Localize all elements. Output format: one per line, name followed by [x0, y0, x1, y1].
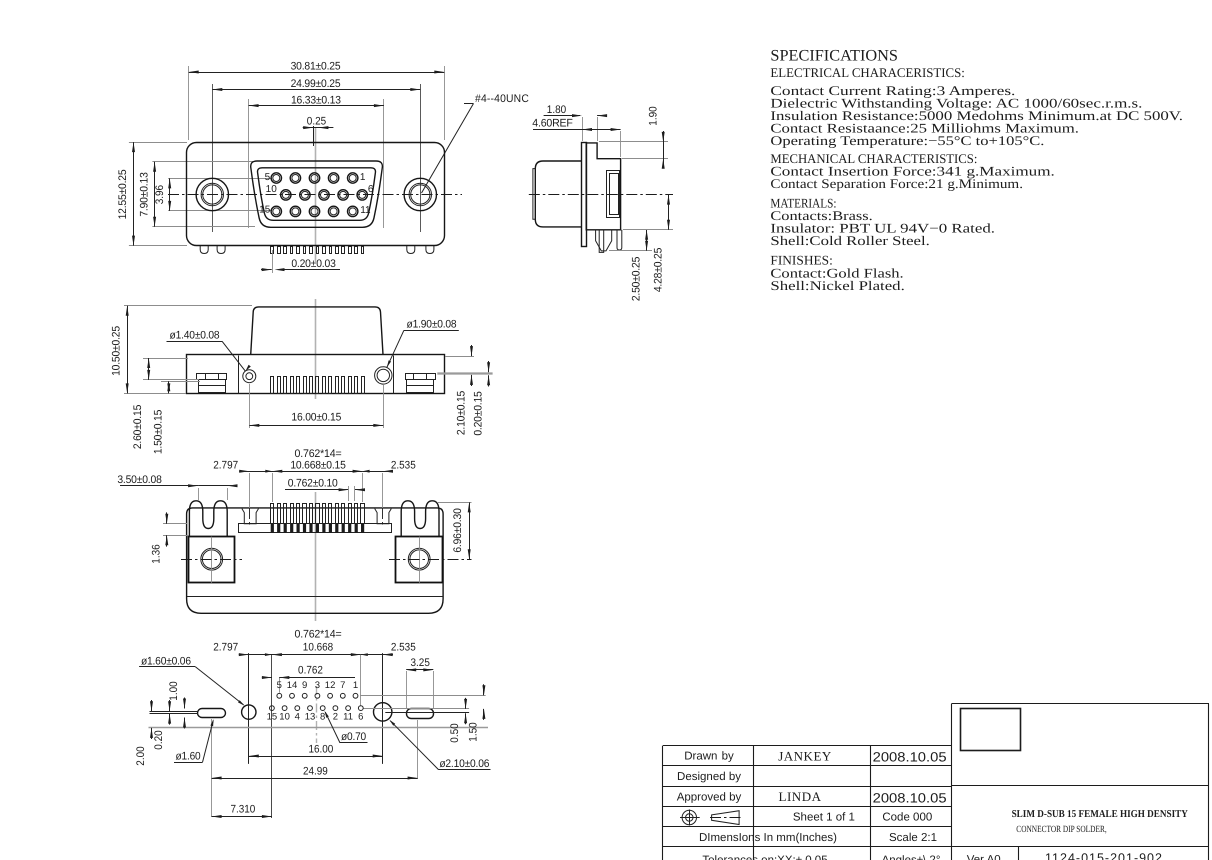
svg-text:10.50±0.25: 10.50±0.25 — [111, 326, 123, 376]
svg-text:4.28±0.25: 4.28±0.25 — [652, 248, 664, 292]
dimension 0.762*14=10.668±0.15 back view — [265, 448, 369, 502]
svg-text:2.10±0.15: 2.10±0.15 — [456, 391, 468, 435]
side view solder pin tapered — [596, 230, 612, 253]
front view solder pins row — [271, 247, 364, 254]
dimension 3.50±0.08 back view — [117, 474, 237, 500]
dimension 24.99±0.25 — [212, 78, 420, 91]
svg-text:0.20±0.15: 0.20±0.15 — [473, 391, 485, 435]
svg-text:5: 5 — [277, 680, 282, 691]
back view board lock fork left — [189, 501, 227, 537]
svg-text:11: 11 — [360, 205, 371, 216]
footprint small holes top row — [277, 693, 358, 698]
D-sub opening outer — [251, 161, 383, 227]
product title — [1012, 809, 1189, 835]
svg-text:#4--40UNC: #4--40UNC — [475, 93, 529, 105]
svg-text:2.535: 2.535 — [391, 641, 416, 653]
svg-text:Tolerances on:XX:± 0.05: Tolerances on:XX:± 0.05 — [702, 855, 827, 860]
svg-text:16.33±0.13: 16.33±0.13 — [291, 94, 341, 106]
dimension 2.00 footprint — [135, 700, 153, 766]
front view shell flange — [187, 143, 445, 246]
top view shell trapezoid — [251, 307, 383, 355]
svg-text:JANKEY: JANKEY — [778, 749, 832, 764]
svg-text:7.310: 7.310 — [230, 804, 255, 816]
back view insulator strip — [239, 524, 392, 533]
top view rivet hole small — [243, 370, 256, 383]
svg-text:0.762±0.10: 0.762±0.10 — [288, 477, 338, 489]
front view: center lines — [168, 127, 462, 262]
dimension 2.60±0.15 — [132, 358, 199, 449]
pin number labels front view — [259, 172, 374, 216]
svg-text:ELECTRICAL CHARACERISTICS:: ELECTRICAL CHARACERISTICS: — [770, 65, 965, 80]
back view board lock fork right — [401, 501, 439, 537]
dimension 30.81±0.25 — [189, 61, 445, 74]
svg-text:2008.10.05: 2008.10.05 — [873, 750, 947, 765]
svg-text:12: 12 — [325, 680, 336, 691]
dimension 7.310 footprint — [212, 804, 272, 819]
dimension 0.20±0.15 — [473, 361, 491, 436]
svg-text:15: 15 — [267, 712, 278, 723]
footprint reference line — [149, 727, 489, 729]
side view flange plate — [582, 143, 587, 247]
svg-text:Scale 2:1: Scale 2:1 — [889, 832, 937, 844]
svg-text:1.50±0.15: 1.50±0.15 — [153, 410, 165, 454]
svg-text:6: 6 — [368, 184, 374, 195]
thread callout #4--40UNC — [422, 93, 530, 193]
svg-text:ø1.40±0.08: ø1.40±0.08 — [170, 330, 220, 342]
dimension 6.96±0.30 back view — [437, 502, 472, 559]
front view mounting hole right — [404, 178, 436, 210]
back view polarizing tab left — [242, 509, 259, 524]
dimension 2.797 footprint — [213, 641, 283, 656]
svg-text:2.50±0.25: 2.50±0.25 — [631, 257, 643, 301]
svg-text:24.99±0.25: 24.99±0.25 — [291, 78, 341, 90]
back view lock block right — [389, 537, 472, 583]
svg-text:0.762*14=: 0.762*14= — [295, 628, 342, 640]
svg-text:3: 3 — [315, 680, 320, 691]
footprint small holes bottom row — [270, 706, 364, 711]
dimension 16.33±0.13 — [249, 94, 384, 107]
svg-text:11: 11 — [343, 712, 353, 723]
dimension 0.762*14=10.668 footprint — [265, 628, 368, 656]
svg-text:Operating Temperature:−55°C: Operating Temperature:−55°C to+105°C. — [770, 133, 1044, 148]
svg-text:2.797: 2.797 — [213, 459, 238, 471]
title block texts — [677, 749, 1163, 860]
svg-text:10.668: 10.668 — [303, 641, 333, 653]
svg-text:1: 1 — [360, 172, 366, 183]
dimension 4.28±0.25 side view — [623, 195, 673, 293]
top view flange — [187, 355, 445, 394]
svg-text:1.50: 1.50 — [467, 722, 479, 741]
side view body block — [586, 143, 620, 230]
svg-text:DImensIons In mm(Inches): DImensIons In mm(Inches) — [699, 832, 837, 844]
back view polarizing tab right — [375, 509, 392, 524]
top view lock sheet reference line — [437, 372, 492, 374]
footprint slot right — [364, 709, 470, 719]
svg-text:2: 2 — [333, 712, 338, 723]
svg-text:1: 1 — [353, 680, 358, 691]
svg-text:ø1.60: ø1.60 — [176, 751, 201, 763]
dimension 0.762 footprint — [262, 664, 355, 679]
svg-text:ø0.70: ø0.70 — [341, 731, 366, 743]
svg-text:10.668±0.15: 10.668±0.15 — [290, 459, 345, 471]
svg-text:Shell:Nickel Plated.: Shell:Nickel Plated. — [770, 278, 904, 293]
dimension 1.80 side view — [544, 104, 608, 141]
top view pins row — [271, 377, 365, 394]
svg-text:6.96±0.30: 6.96±0.30 — [452, 508, 464, 552]
footprint hole ø1.60 left — [242, 705, 256, 719]
svg-text:Approved by: Approved by — [677, 791, 742, 803]
svg-text:13: 13 — [305, 712, 316, 723]
logo box — [961, 709, 1021, 751]
svg-text:1124-015-201-902: 1124-015-201-902 — [1045, 851, 1163, 860]
svg-text:12.55±0.25: 12.55±0.25 — [117, 170, 129, 220]
svg-text:Contact Separation Force:21: Contact Separation Force:21 g.Minimum. — [770, 176, 1023, 191]
svg-text:3.96: 3.96 — [154, 185, 166, 204]
front view mounting hole left — [196, 178, 228, 210]
back view lock block left — [181, 537, 242, 583]
svg-text:1.36: 1.36 — [150, 544, 162, 563]
svg-text:16.00±0.15: 16.00±0.15 — [291, 411, 341, 423]
svg-text:10: 10 — [279, 712, 290, 723]
dimension 0.20 footprint — [153, 700, 171, 750]
top view rivet hole large — [375, 367, 392, 384]
svg-text:2008.10.05: 2008.10.05 — [873, 790, 947, 805]
callout ø1.60±0.06 — [139, 655, 244, 705]
dimension 12.55±0.25 — [117, 142, 135, 246]
svg-text:2.797: 2.797 — [213, 641, 238, 653]
svg-text:30.81±0.25: 30.81±0.25 — [291, 61, 341, 73]
svg-text:4.60REF: 4.60REF — [532, 118, 573, 130]
side view board lock pin — [617, 230, 622, 250]
footprint top row line ext — [360, 695, 486, 697]
svg-text:ø1.90±0.08: ø1.90±0.08 — [407, 319, 457, 331]
dimension 0.20±0.03 — [261, 250, 340, 273]
svg-text:0.20±0.03: 0.20±0.03 — [291, 258, 335, 270]
svg-text:Sheet 1 of 1: Sheet 1 of 1 — [793, 812, 855, 824]
top view board lock left — [197, 373, 227, 392]
svg-text:ø2.10±0.06: ø2.10±0.06 — [439, 758, 489, 770]
side view insulator slot — [607, 171, 620, 218]
dimension 7.90±0.13 — [138, 162, 156, 227]
svg-text:SPECIFICATIONS: SPECIFICATIONS — [770, 48, 898, 65]
dimension 0.50 footprint — [449, 698, 467, 743]
front view: extension lines — [129, 66, 445, 246]
svg-text:5: 5 — [265, 172, 271, 183]
dimension 0.762±0.10 back view — [285, 477, 365, 501]
dimension 3.25 footprint — [406, 657, 433, 708]
callout ø0.70 — [325, 711, 368, 743]
callout ø2.10±0.06 — [389, 720, 490, 770]
svg-text:0.50: 0.50 — [449, 723, 461, 742]
svg-text:16.00: 16.00 — [308, 744, 333, 756]
dimension 1.00 footprint — [168, 681, 186, 728]
back view body — [187, 508, 444, 613]
svg-text:0.20: 0.20 — [153, 730, 165, 749]
svg-text:3.50±0.08: 3.50±0.08 — [117, 474, 161, 486]
side view center line — [529, 194, 673, 196]
svg-text:7.90±0.13: 7.90±0.13 — [138, 172, 150, 216]
svg-text:ø1.60±0.06: ø1.60±0.06 — [141, 655, 191, 667]
footprint center line — [316, 686, 318, 743]
svg-text:Ver A0: Ver A0 — [967, 854, 1001, 860]
dimension 2.797 back view — [213, 459, 283, 527]
dimension 1.90 side view — [599, 106, 668, 168]
D-sub opening inner — [258, 168, 376, 221]
front view mounting feet — [200, 246, 434, 254]
dimension 2.10±0.15 — [445, 345, 474, 435]
svg-text:2.535: 2.535 — [391, 459, 416, 471]
dimension 2.535 back view — [353, 459, 416, 527]
svg-text:2.60±0.15: 2.60±0.15 — [132, 405, 144, 449]
svg-text:Designed by: Designed by — [677, 771, 741, 783]
dimension 1.50±0.15 — [153, 381, 200, 454]
svg-text:8: 8 — [320, 712, 325, 723]
back view center line — [315, 492, 317, 621]
dimension 1.36 back view — [150, 512, 188, 563]
svg-text:24.99: 24.99 — [303, 766, 328, 778]
footprint slot left — [150, 709, 226, 718]
svg-text:0.762: 0.762 — [298, 664, 323, 676]
dimension 2.535 footprint — [351, 641, 416, 656]
svg-text:Angles±\ 2°: Angles±\ 2° — [882, 855, 941, 860]
callout ø1.90±0.08 — [387, 319, 459, 368]
side view D shell — [533, 161, 582, 227]
svg-text:7: 7 — [340, 680, 345, 691]
specifications text block — [770, 65, 1183, 293]
svg-text:1.80: 1.80 — [547, 104, 566, 116]
svg-text:9: 9 — [302, 680, 307, 691]
svg-text:SLIM D-SUB 15 FEMALE HIG: SLIM D-SUB 15 FEMALE HIGH DENSITY — [1012, 809, 1189, 820]
projection symbol — [680, 810, 742, 826]
footprint pin labels bottom row — [267, 712, 364, 723]
svg-text:14: 14 — [287, 680, 298, 691]
svg-text:0.25: 0.25 — [307, 115, 326, 127]
dimension 1.50 footprint — [467, 684, 485, 741]
svg-text:10: 10 — [266, 184, 278, 195]
dimension 2.50±0.25 side view — [609, 230, 652, 301]
callout ø1.40±0.08 — [167, 330, 251, 372]
dimension 0.25 — [303, 115, 334, 146]
footprint hole ø2.10 right — [374, 703, 392, 721]
svg-text:1.90: 1.90 — [648, 106, 660, 125]
svg-text:15: 15 — [259, 204, 271, 215]
svg-text:4: 4 — [295, 712, 300, 723]
svg-text:Code 000: Code 000 — [882, 812, 932, 824]
dimension 16.00 footprint — [249, 744, 383, 758]
svg-text:Shell:Cold Roller Steel.: Shell:Cold Roller Steel. — [770, 233, 929, 248]
dimension 16.00±0.15 top view — [249, 384, 383, 428]
dimension 10.50±0.25 — [111, 306, 253, 394]
contact holes rows — [271, 173, 367, 217]
top view board lock right — [406, 373, 436, 392]
title block grid — [663, 704, 1210, 860]
svg-text:CONNECTOR DIP SOLDER,: CONNECTOR DIP SOLDER, — [1016, 825, 1106, 835]
footprint pin labels top row — [277, 680, 358, 691]
svg-text:Drawn by: Drawn by — [684, 751, 734, 763]
dimension 3.96 — [154, 178, 171, 211]
svg-text:LINDA: LINDA — [779, 789, 822, 804]
callout ø1.60 slot — [174, 719, 214, 763]
svg-text:2.00: 2.00 — [135, 746, 147, 765]
top view center line — [315, 299, 317, 399]
footprint extension lines — [212, 653, 418, 818]
svg-text:3.25: 3.25 — [411, 657, 430, 669]
top view insulator edges — [239, 356, 394, 394]
back view pins — [271, 504, 365, 533]
dimension 24.99 footprint — [212, 766, 418, 780]
svg-text:1.00: 1.00 — [168, 681, 180, 700]
svg-text:0.762*14=: 0.762*14= — [295, 448, 342, 460]
svg-text:6: 6 — [358, 712, 363, 723]
dimension 4.60REF side view — [532, 118, 620, 157]
